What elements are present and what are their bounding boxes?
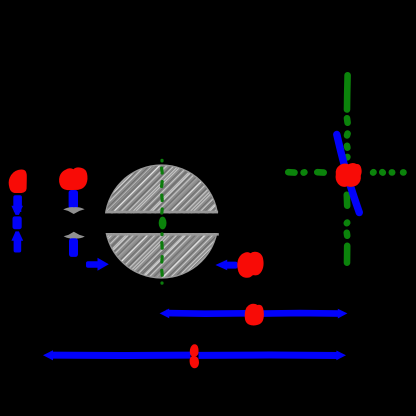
blue lower leader of annotation 2 <box>69 238 78 257</box>
shaft right segment <box>199 352 339 360</box>
left arrowhead <box>43 350 53 360</box>
gray down arrowhead (slot top) <box>63 207 84 214</box>
blue upper arrow (down) of annotation 1 <box>13 195 22 208</box>
blue middle block of annotation 1 <box>13 216 22 229</box>
slot top chord line <box>106 211 219 214</box>
blue lower arrow (up) of annotation 1 <box>11 231 23 240</box>
red label F <box>190 344 199 368</box>
shaft left segment <box>166 310 246 317</box>
red label D (angle label at cross center) <box>336 163 362 187</box>
red label A <box>9 169 27 193</box>
right arrowhead <box>338 309 348 319</box>
hatched circle (sectioned disc) <box>105 165 218 278</box>
circle vertical green centerline (dashed) <box>160 160 164 283</box>
green center marker (ellipse) <box>159 217 167 230</box>
red label C <box>237 252 263 278</box>
horizontal green dashed centerline <box>288 169 403 176</box>
red label E <box>245 304 264 326</box>
vertical green dashed centerline <box>343 75 350 262</box>
slot cut (black band) <box>96 213 226 233</box>
shaft right segment <box>263 310 341 317</box>
blue upper leader of annotation 2 <box>69 190 78 209</box>
slot bottom chord line <box>107 233 219 236</box>
red label B <box>59 167 87 190</box>
left blue arrow pointing right <box>86 261 99 268</box>
right blue arrow pointing left <box>215 260 227 271</box>
gray up arrowhead (slot bottom) <box>64 232 85 239</box>
shaft left segment <box>50 352 191 359</box>
blue inclined line through cross center <box>337 135 360 213</box>
right arrowhead <box>336 351 346 361</box>
left arrowhead <box>160 309 170 319</box>
